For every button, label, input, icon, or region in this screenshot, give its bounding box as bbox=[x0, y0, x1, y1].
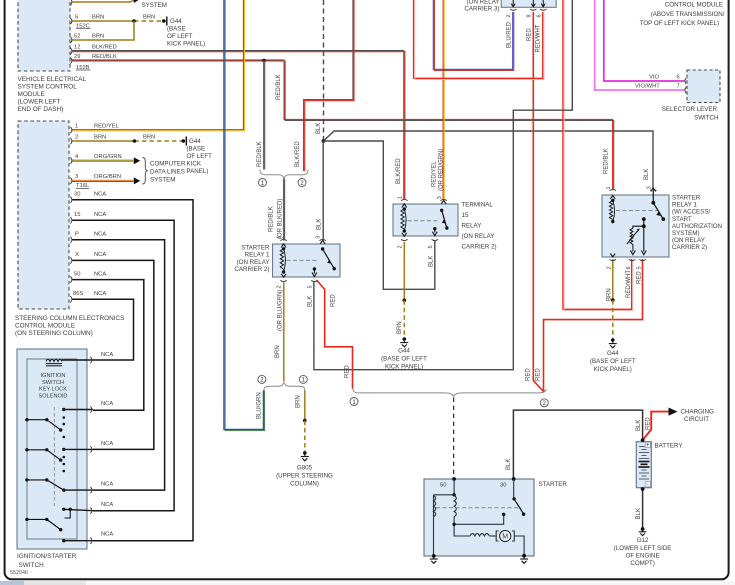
svg-text:1: 1 bbox=[75, 123, 78, 129]
ignition switch name label bbox=[17, 553, 77, 569]
svg-text:RELAY 1: RELAY 1 bbox=[245, 252, 270, 259]
svg-text:86S: 86S bbox=[73, 291, 83, 297]
svg-text:COMPT): COMPT) bbox=[630, 560, 654, 567]
svg-text:(W/ ACCESS/: (W/ ACCESS/ bbox=[672, 209, 710, 216]
svg-text:TERMINAL: TERMINAL bbox=[462, 202, 494, 209]
wire RED/BLK branch 1 down to brace bbox=[264, 61, 265, 170]
svg-text:8: 8 bbox=[527, 14, 533, 17]
brace 3 (split BRN into BLU/GRN + BRN) bbox=[264, 383, 305, 391]
svg-text:BLK/RED: BLK/RED bbox=[92, 44, 117, 50]
svg-text:SWITCH: SWITCH bbox=[42, 380, 64, 386]
svg-text:50: 50 bbox=[440, 483, 446, 489]
wire BLK battery negative to G12 bbox=[642, 489, 644, 529]
row1 arm bbox=[25, 418, 28, 421]
svg-text:KEY LOCK: KEY LOCK bbox=[39, 387, 67, 393]
svg-text:(LOWER LEFT: (LOWER LEFT bbox=[18, 99, 61, 106]
svg-text:G44: G44 bbox=[189, 138, 201, 145]
svg-text:BRN: BRN bbox=[143, 15, 155, 21]
svg-text:BRN: BRN bbox=[607, 288, 613, 301]
svg-text:OF LEFT: OF LEFT bbox=[187, 153, 213, 160]
svg-text:RED/WHT: RED/WHT bbox=[536, 24, 542, 52]
node COMPUTER DATA LINES SYSTEM label bbox=[150, 160, 186, 183]
svg-text:OF ENGINE: OF ENGINE bbox=[626, 553, 660, 560]
node BLK junction bbox=[322, 139, 326, 143]
svg-text:5: 5 bbox=[308, 285, 314, 288]
middle relay name label bbox=[234, 245, 270, 274]
wire NCA module2 pin 86S to ignition row0 bbox=[72, 299, 134, 360]
wire RED/WHT relay3 pin 6 bbox=[414, 0, 544, 80]
row2 arm bbox=[25, 448, 28, 451]
svg-text:G44: G44 bbox=[398, 348, 410, 355]
terminal15: switch arm bbox=[432, 200, 448, 235]
node G44 label (terminal15) bbox=[381, 348, 427, 371]
wire BLK/RED circuit 2 from top of page down to brace bbox=[304, 0, 354, 171]
battery bbox=[636, 438, 651, 491]
svg-text:RED/WHT: RED/WHT bbox=[626, 270, 632, 298]
right relay: switch arm pin3 bbox=[651, 188, 665, 221]
wire RED battery to charging circuit arrow bbox=[643, 412, 670, 441]
svg-text:BRN: BRN bbox=[397, 321, 403, 334]
wire BLK battery to starter pin 30 bbox=[513, 410, 642, 479]
relay STARTER RELAY 1 (w/ access) box right bbox=[602, 195, 669, 257]
svg-text:G44: G44 bbox=[170, 18, 182, 25]
module VEHICLE ELECTRICAL SYSTEM CONTROL MODULE box bbox=[18, 0, 70, 71]
row2 contact bbox=[62, 448, 65, 451]
svg-text:(ON RELAY: (ON RELAY bbox=[462, 233, 495, 240]
ignition solenoid coil bbox=[46, 359, 62, 366]
wire NCA module2 pin 15 to ignition row4 bbox=[72, 220, 174, 510]
starter coil left bbox=[434, 496, 436, 517]
svg-text:RED: RED bbox=[646, 417, 652, 430]
svg-text:3: 3 bbox=[437, 196, 443, 199]
svg-text:RED/YEL: RED/YEL bbox=[94, 123, 120, 129]
svg-text:BRN: BRN bbox=[92, 34, 104, 40]
svg-text:(BASE: (BASE bbox=[167, 26, 186, 33]
node junction BRN pins 5/52 bbox=[132, 19, 136, 23]
wire VIO/WHT to selector pin 7 bbox=[595, 0, 685, 90]
node 152C connector label bbox=[76, 24, 91, 30]
svg-text:3: 3 bbox=[75, 174, 78, 180]
brace computer data lines bbox=[142, 158, 148, 185]
svg-text:2: 2 bbox=[607, 266, 613, 269]
wire BLU/RED relay3 pin 2 bbox=[433, 0, 514, 70]
svg-text:BLK: BLK bbox=[636, 420, 642, 431]
wire BRN middle relay pin 2 down to split brace bbox=[283, 283, 285, 382]
terminal15: pin1 arrow + coil bbox=[401, 204, 407, 233]
svg-text:RED: RED bbox=[536, 368, 542, 381]
terminal15 pin number labels bbox=[397, 196, 442, 248]
control module name label bbox=[640, 2, 725, 28]
svg-text:SWITCH: SWITCH bbox=[694, 115, 718, 122]
svg-text:BLK: BLK bbox=[316, 123, 322, 134]
svg-text:3: 3 bbox=[646, 186, 652, 189]
ground G44 (terminal15) bbox=[400, 337, 408, 347]
svg-text:BRN: BRN bbox=[92, 15, 104, 21]
svg-text:(ON RELAY: (ON RELAY bbox=[467, 0, 500, 5]
svg-text:NCA: NCA bbox=[94, 212, 106, 218]
svg-text:NCA: NCA bbox=[101, 502, 113, 508]
wire BLU/GRN from split brace up left to top of page bbox=[224, 0, 265, 431]
svg-text:RED/BLK: RED/BLK bbox=[269, 206, 275, 232]
right relay: dashed actuator link bbox=[616, 210, 658, 212]
wire RED relay3 pin 8 down to brace 2 bbox=[533, 12, 544, 392]
svg-text:SYSTEM: SYSTEM bbox=[142, 2, 167, 9]
svg-text:P: P bbox=[75, 232, 79, 238]
svg-text:CARRIER 2): CARRIER 2) bbox=[672, 244, 707, 251]
wire BLK dashed from top of page bbox=[323, 0, 325, 141]
svg-text:CONTROL MODULE: CONTROL MODULE bbox=[665, 2, 723, 9]
ground G805 bbox=[301, 451, 309, 461]
starter coil right bbox=[454, 496, 456, 517]
starter internal wiring bbox=[434, 479, 525, 556]
wire RED/YEL (OR RED/GRN) from top to terminal-15 pin 3 bbox=[443, 0, 444, 200]
node G805 label bbox=[276, 465, 333, 488]
module STEERING COLUMN ELECTRONICS CONTROL MODULE box bbox=[18, 121, 69, 309]
relay middle: pin1 arrow + coil bbox=[280, 244, 286, 274]
ignition switch contacts bbox=[25, 408, 93, 543]
svg-text:NCA: NCA bbox=[101, 352, 113, 358]
selector name label bbox=[662, 106, 719, 122]
svg-text:30: 30 bbox=[74, 192, 80, 198]
svg-text:2: 2 bbox=[397, 245, 403, 248]
svg-text:BLK/RED: BLK/RED bbox=[396, 158, 402, 184]
svg-text:(OR BLU/GRN): (OR BLU/GRN) bbox=[278, 290, 284, 331]
relay carrier 3 box (top, cut off) bbox=[501, 0, 556, 7]
brace 2 (long, merge REDs to starter 50) bbox=[353, 389, 546, 397]
wire RED middle relay pin 5 to brace2 bbox=[317, 280, 353, 389]
wire BLK starter relay pin 3 bbox=[322, 141, 324, 241]
wire ORG/GRN module2 pin 4 bbox=[72, 160, 134, 161]
wire BRN pin 52 bbox=[72, 21, 134, 40]
node BRN dot bbox=[611, 298, 615, 302]
svg-text:RED: RED bbox=[331, 294, 337, 307]
bottom UI band bbox=[0, 581, 735, 585]
svg-text:(ON RELAY: (ON RELAY bbox=[672, 237, 705, 244]
relay middle pin arcs top bbox=[280, 239, 325, 240]
svg-text:29: 29 bbox=[74, 54, 80, 60]
svg-text:(ON RELAY: (ON RELAY bbox=[237, 259, 270, 266]
svg-text:OF LEFT: OF LEFT bbox=[167, 33, 193, 40]
svg-text:VIO: VIO bbox=[649, 75, 659, 81]
row5 contact bbox=[62, 539, 65, 542]
svg-text:NCA: NCA bbox=[94, 252, 106, 258]
starter switch contacts bbox=[452, 493, 525, 526]
module1 pin labels bbox=[74, 15, 117, 60]
wire BRN to SYSTEM arrow (module 1 top pin) bbox=[72, 0, 140, 3]
svg-text:RED/YEL: RED/YEL bbox=[432, 161, 438, 187]
svg-text:7: 7 bbox=[677, 84, 680, 90]
row4 contact + L link bbox=[62, 508, 65, 511]
svg-text:RED/BLK: RED/BLK bbox=[276, 74, 282, 100]
svg-text:(BASE: (BASE bbox=[187, 146, 206, 153]
svg-text:BLK/RED: BLK/RED bbox=[295, 141, 301, 167]
ignition solenoid label bbox=[39, 373, 68, 399]
right relay: contact and resistor branch bbox=[627, 217, 646, 254]
relay middle: switch arm pin3 to contact bbox=[312, 240, 336, 276]
relay3 name label bbox=[464, 0, 499, 13]
svg-text:12: 12 bbox=[74, 44, 80, 50]
svg-text:15: 15 bbox=[74, 212, 80, 218]
svg-text:BLK: BLK bbox=[636, 508, 642, 519]
node BRN dot bbox=[303, 419, 307, 423]
row3 arm bbox=[25, 478, 28, 481]
node G44 label (module2) bbox=[187, 138, 213, 175]
circled 1 label bbox=[350, 398, 358, 406]
wire NCA module2 pin 30 to ignition row5 bbox=[72, 200, 193, 541]
wire BLK/RED pin 12 to terminal-15 relay pin 1 bbox=[72, 51, 405, 199]
arrow computer data lines (pin3) bbox=[134, 177, 140, 184]
svg-text:BLU/RED: BLU/RED bbox=[506, 21, 512, 48]
svg-text:STARTER: STARTER bbox=[672, 195, 701, 202]
wire RED/BLK (OR BLK/RED) merged to starter relay pin 1 bbox=[284, 179, 285, 241]
svg-text:2: 2 bbox=[506, 14, 512, 17]
wire BLK branch to terminal-15 relay pin 5 bbox=[324, 141, 435, 289]
terminal15: dashed actuator link bbox=[408, 220, 439, 222]
wire NCA module2 pin 50 to ignition row1 bbox=[72, 280, 144, 411]
brace 1 (merge RED/BLK + BLK/RED) bbox=[260, 170, 308, 179]
row1 contact bbox=[62, 408, 65, 411]
row3 contact bbox=[62, 488, 65, 491]
wire BRN terminal15 pin2 down bbox=[403, 242, 405, 300]
svg-text:NCA: NCA bbox=[101, 482, 113, 488]
svg-text:RED/BLK: RED/BLK bbox=[604, 148, 610, 174]
relay3 pin arrows bbox=[511, 0, 545, 7]
terminal15 pin arcs bottom bbox=[401, 239, 438, 240]
svg-text:BRN: BRN bbox=[94, 135, 106, 141]
right relay: pin1 arrow + coil bbox=[609, 195, 615, 223]
arrow computer data lines (pin4) bbox=[134, 157, 140, 164]
svg-text:TOP OF LEFT KICK PANEL): TOP OF LEFT KICK PANEL) bbox=[640, 20, 719, 27]
ignition mech dashed line bbox=[53, 407, 55, 506]
svg-text:BLK: BLK bbox=[428, 256, 434, 267]
svg-text:-: - bbox=[647, 482, 649, 488]
svg-text:BLU/GRN: BLU/GRN bbox=[257, 392, 263, 419]
terminal15 pin arcs top bbox=[401, 199, 447, 200]
svg-text:(UPPER STEERING: (UPPER STEERING bbox=[276, 473, 333, 480]
relay middle: dashed actuator link bbox=[287, 259, 320, 261]
svg-text:VIO/WHT: VIO/WHT bbox=[635, 84, 660, 90]
wire BRN dashed to G44 ground bbox=[403, 300, 405, 339]
svg-text:2: 2 bbox=[75, 135, 78, 141]
ground G12 bbox=[639, 527, 647, 536]
svg-text:RELAY 1: RELAY 1 bbox=[672, 202, 697, 209]
svg-text:MODULE: MODULE bbox=[18, 91, 45, 98]
ignition inner box (key lock solenoid) bbox=[27, 359, 77, 539]
svg-text:CIRCUIT: CIRCUIT bbox=[684, 416, 709, 423]
svg-text:G44: G44 bbox=[607, 350, 619, 357]
svg-text:(BASE OF LEFT: (BASE OF LEFT bbox=[381, 356, 427, 363]
svg-text:15: 15 bbox=[462, 212, 469, 219]
right relay pin number labels bbox=[606, 186, 653, 269]
svg-text:RED/BLK: RED/BLK bbox=[257, 141, 263, 167]
module2 pin labels bbox=[73, 123, 122, 297]
node junction RED/BLK at x264 bbox=[262, 59, 266, 63]
arrow charging circuit bbox=[669, 408, 678, 416]
relay middle pin2 exit arrow bbox=[281, 274, 286, 277]
svg-text:RED: RED bbox=[527, 28, 533, 41]
relay3 pin number labels bbox=[506, 14, 542, 17]
svg-text:5: 5 bbox=[636, 266, 642, 269]
relay3 pin arcs bbox=[510, 9, 546, 10]
module1 pin arcs bbox=[70, 0, 72, 64]
svg-text:SYSTEM: SYSTEM bbox=[150, 176, 175, 183]
wire BRN pin 5 to G44 junction bbox=[72, 20, 134, 22]
svg-text:(OR BLK/RED): (OR BLK/RED) bbox=[278, 199, 284, 239]
svg-text:(BASE OF LEFT: (BASE OF LEFT bbox=[590, 358, 636, 365]
svg-text:5: 5 bbox=[428, 245, 434, 248]
svg-text:NCA: NCA bbox=[94, 192, 106, 198]
wire BRN from split brace down to G805 bbox=[304, 391, 306, 421]
svg-text:KICK PANEL): KICK PANEL) bbox=[594, 366, 632, 373]
node BRN dot bbox=[403, 299, 407, 303]
starter dashed link bbox=[436, 507, 521, 509]
selector lever switch box bbox=[687, 70, 720, 103]
svg-text:2: 2 bbox=[277, 285, 283, 288]
svg-text:(ABOVE TRANSMISSION/: (ABOVE TRANSMISSION/ bbox=[651, 11, 725, 18]
selector pin arcs bbox=[685, 78, 686, 93]
svg-text:RED: RED bbox=[637, 271, 643, 284]
ignition/starter switch outer box bbox=[17, 349, 87, 549]
svg-text:BATTERY: BATTERY bbox=[655, 443, 683, 450]
svg-text:KICK: KICK bbox=[187, 161, 202, 168]
ground G44 (right relay) bbox=[609, 338, 617, 348]
svg-text:52: 52 bbox=[74, 34, 80, 40]
wire RED/WHT long from top to right relay pin 6 bbox=[563, 0, 633, 311]
svg-text:RED/BLK: RED/BLK bbox=[92, 54, 117, 60]
terminal15 pin2 exit arrow bbox=[402, 233, 407, 236]
svg-text:1: 1 bbox=[397, 196, 403, 199]
svg-text:KICK PANEL): KICK PANEL) bbox=[167, 41, 205, 48]
svg-text:RED: RED bbox=[345, 365, 351, 378]
wire BLK from top to middle relay pin 5 (via long route) bbox=[314, 0, 572, 370]
svg-text:NCA: NCA bbox=[94, 232, 106, 238]
svg-text:SELECTOR LEVER: SELECTOR LEVER bbox=[662, 106, 718, 113]
svg-text:(ON STEERING COLUMN): (ON STEERING COLUMN) bbox=[15, 330, 93, 337]
circled 2 label bbox=[298, 179, 306, 187]
right relay name label bbox=[672, 195, 722, 252]
circled 2 label bbox=[540, 399, 548, 407]
middle relay pin number labels bbox=[277, 236, 322, 289]
svg-text:M: M bbox=[502, 534, 508, 541]
relay STARTER RELAY 1 (middle) box bbox=[273, 244, 341, 277]
svg-text:RED: RED bbox=[526, 368, 532, 381]
wire RED right relay pin 5 to brace2 bbox=[544, 259, 643, 392]
svg-text:KICK PANEL): KICK PANEL) bbox=[385, 364, 423, 371]
svg-text:BLK: BLK bbox=[308, 296, 314, 307]
svg-text:BRN: BRN bbox=[296, 395, 302, 408]
svg-text:SYSTEM): SYSTEM) bbox=[672, 230, 700, 237]
ignition NCA pin labels bbox=[101, 352, 113, 538]
svg-text:START: START bbox=[672, 216, 692, 223]
wire BLK branch to right relay pin 3 bbox=[324, 131, 654, 190]
node G44 label (right relay) bbox=[590, 350, 636, 373]
svg-text:IGNITION: IGNITION bbox=[41, 373, 66, 379]
svg-text:STEERING COLUMN ELECTRONICS: STEERING COLUMN ELECTRONICS bbox=[15, 315, 124, 322]
circled 2 label bbox=[258, 375, 266, 383]
svg-text:STARTER: STARTER bbox=[241, 245, 270, 252]
svg-text:6: 6 bbox=[677, 75, 680, 81]
right relay pin arcs bottom bbox=[610, 259, 646, 260]
G44 connector symbol (module2) bbox=[182, 137, 187, 146]
node 152B connector label bbox=[76, 65, 91, 71]
starter ground left bbox=[430, 554, 438, 563]
svg-text:3: 3 bbox=[316, 236, 322, 239]
svg-text:NCA: NCA bbox=[101, 532, 113, 538]
module1 name label bbox=[18, 76, 87, 113]
node G12 label bbox=[614, 537, 672, 567]
svg-text:CONTROL MODULE: CONTROL MODULE bbox=[15, 323, 75, 330]
svg-text:BLK: BLK bbox=[506, 459, 512, 470]
svg-text:50: 50 bbox=[74, 271, 80, 277]
row5 arm bbox=[25, 518, 28, 521]
svg-text:1: 1 bbox=[277, 236, 283, 239]
svg-text:(OR RED/GRN): (OR RED/GRN) bbox=[439, 149, 445, 191]
svg-text:AUTHORIZATION: AUTHORIZATION bbox=[672, 223, 722, 230]
svg-text:30: 30 bbox=[500, 483, 506, 489]
G44 connector symbol (module1) bbox=[162, 17, 167, 26]
wire BRN dashed to G44 ground right bbox=[612, 300, 614, 340]
ignition pin arcs bbox=[90, 357, 92, 544]
svg-text:+: + bbox=[646, 443, 649, 449]
terminal15 name label bbox=[462, 202, 497, 251]
svg-text:6: 6 bbox=[536, 14, 542, 17]
svg-text:(LOWER LEFT SIDE: (LOWER LEFT SIDE bbox=[614, 545, 672, 552]
node CHARGING CIRCUIT label bbox=[681, 409, 715, 424]
svg-text:ORG/BRN: ORG/BRN bbox=[94, 174, 121, 180]
right relay pin arcs top bbox=[610, 189, 657, 190]
svg-text:SOLENOID: SOLENOID bbox=[39, 393, 68, 399]
wire NCA module2 pin X to ignition row2 bbox=[72, 260, 154, 449]
svg-text:ORG/GRN: ORG/GRN bbox=[94, 154, 122, 160]
circled 1 label bbox=[299, 375, 307, 383]
node T16L connector label bbox=[76, 183, 90, 189]
wire VIO to selector pin 6 bbox=[604, 0, 685, 81]
starter ground right bbox=[520, 554, 528, 564]
svg-text:BRN: BRN bbox=[143, 135, 155, 141]
module2 pin arcs bbox=[70, 127, 72, 303]
wire BRN dashed to G805 ground bbox=[304, 421, 306, 453]
svg-text:END OF DASH): END OF DASH) bbox=[18, 106, 64, 113]
svg-text:CARRIER 2): CARRIER 2) bbox=[462, 244, 497, 251]
wire RED/YEL module2 pin 1 up to top of page bbox=[72, 0, 245, 131]
svg-text:6: 6 bbox=[626, 266, 632, 269]
svg-text:NCA: NCA bbox=[94, 271, 106, 277]
svg-text:NCA: NCA bbox=[101, 441, 113, 447]
svg-text:BRN: BRN bbox=[275, 345, 281, 358]
wire NCA module2 pin P to ignition row3 bbox=[72, 240, 165, 490]
svg-text:552046: 552046 bbox=[10, 570, 28, 576]
svg-text:VEHICLE ELECTRICAL: VEHICLE ELECTRICAL bbox=[18, 76, 87, 83]
selector pin labels bbox=[635, 75, 680, 90]
wire BRN dashed to G44 (module1) bbox=[134, 20, 164, 22]
wire BLK dashed from brace2 to starter pin 50 bbox=[453, 398, 455, 480]
wire BRN dashed to G44 (module2) bbox=[134, 140, 183, 142]
svg-text:NCA: NCA bbox=[101, 401, 113, 407]
svg-text:SYSTEM CONTROL: SYSTEM CONTROL bbox=[18, 84, 78, 91]
svg-text:CHARGING: CHARGING bbox=[681, 409, 715, 416]
circled 1 label bbox=[259, 179, 267, 187]
svg-text:COMPUTER: COMPUTER bbox=[150, 160, 186, 167]
svg-text:IGNITION/STARTER: IGNITION/STARTER bbox=[17, 553, 77, 560]
starter motor symbol bbox=[496, 530, 514, 541]
svg-text:X: X bbox=[75, 252, 79, 258]
starter motor inductor bbox=[470, 534, 489, 536]
svg-text:PANEL): PANEL) bbox=[187, 168, 209, 175]
wire BRN right relay pin2 down bbox=[612, 259, 614, 300]
svg-text:BLK: BLK bbox=[317, 219, 323, 230]
svg-text:COLUMN): COLUMN) bbox=[290, 481, 319, 488]
node G44 label (module1) bbox=[167, 18, 205, 48]
